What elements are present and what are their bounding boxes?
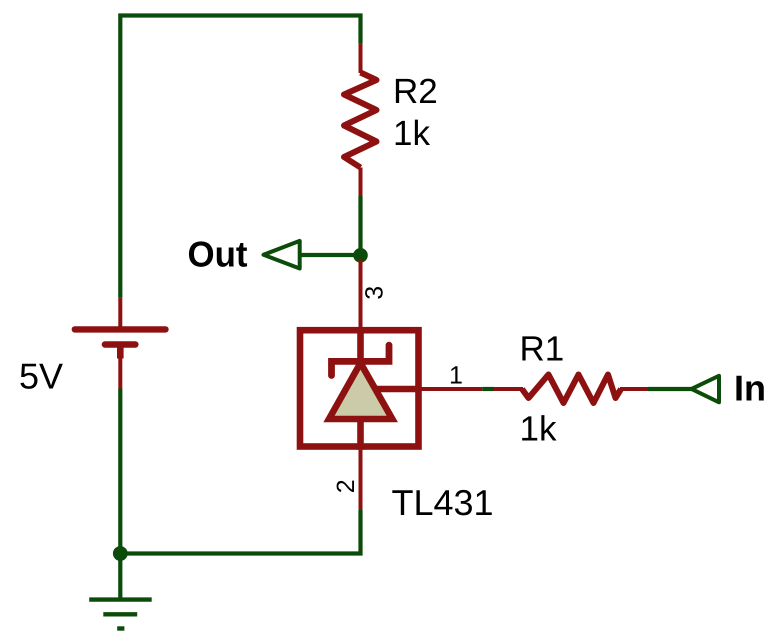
resistor R1 [494,375,648,404]
battery G1 bottom pin [118,359,122,389]
TL431 anode triangle [329,363,392,419]
svg-text:R2: R2 [393,72,438,111]
pin 3 (cathode) of U1 [359,260,363,332]
wire GND net bottom [120,510,360,554]
pin 2 (anode) of U1 [359,450,363,510]
net label arrow In [692,376,720,403]
svg-text:1k: 1k [520,409,557,448]
op-amp U1 TL431 body box [300,330,419,446]
pin 1 (ref) of U1 [419,387,483,391]
battery G1 negative plate [105,341,135,347]
svg-text:In: In [734,368,766,409]
ground bar 2 [103,612,137,616]
net label arrow Out [264,241,300,269]
wire R1 to In arrow [648,387,692,391]
svg-text:R1: R1 [520,330,565,369]
svg-text:TL431: TL431 [392,482,494,523]
svg-text:5V: 5V [19,356,63,397]
ground bar 1 [89,597,152,601]
svg-text:1k: 1k [393,114,430,153]
wire GND net left [118,389,122,554]
wire Out stub [301,253,361,257]
battery G1 positive plate [75,326,166,332]
svg-text:Out: Out [188,234,248,275]
svg-text:3: 3 [360,286,388,300]
ground bar 3 [117,626,124,630]
wire R2 bottom to Out node [358,196,362,250]
resistor R2 [344,44,377,196]
TL431 internal reference lead [377,386,419,393]
ground symbol stem [118,554,122,599]
wire pin1 to R1 [482,387,494,391]
TL431 zener cathode bar with hooks [332,345,390,375]
battery G1 negative stub [117,345,124,359]
TL431 internal anode lead [357,419,364,450]
svg-text:2: 2 [332,479,360,493]
TL431 internal cathode lead [357,330,364,361]
battery G1 top pin [118,298,122,330]
svg-text:1: 1 [449,361,463,389]
junction node Out [353,248,368,263]
wire VCC net (battery + to top rail to R2 top) [120,16,360,298]
junction node GND [113,546,128,561]
